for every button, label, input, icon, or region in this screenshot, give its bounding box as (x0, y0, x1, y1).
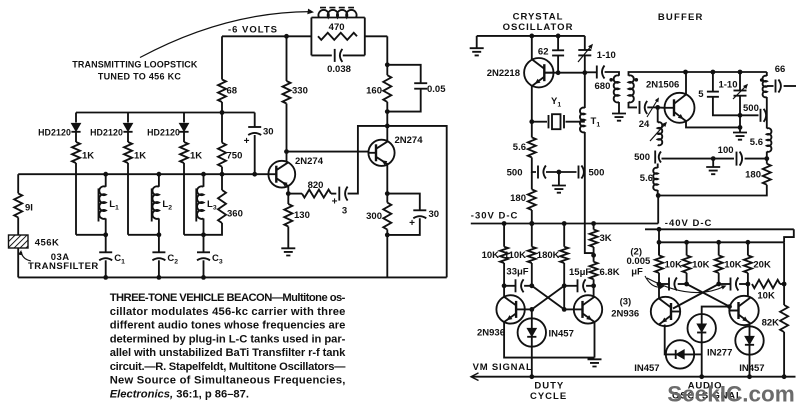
wire L1 core bar (98, 188, 100, 221)
svg-text:33μF: 33μF (506, 267, 528, 278)
wire Q3 base (525, 308, 532, 310)
wire cap5 top (712, 72, 714, 92)
svg-text:3K: 3K (600, 233, 612, 244)
svg-text:2N936: 2N936 (477, 328, 505, 339)
junction 1-10b/500 node (738, 113, 743, 118)
capacitor 100 (736, 152, 738, 166)
resistor 330 (283, 81, 291, 104)
wire Q4 base (564, 308, 574, 310)
svg-text:VM SIGNAL: VM SIGNAL (473, 362, 533, 373)
svg-text:TUNED TO 456 KC: TUNED TO 456 KC (98, 72, 182, 82)
resistor 180 buffer (763, 164, 771, 185)
svg-text:2N936: 2N936 (611, 309, 639, 320)
wire T1 top (584, 73, 586, 108)
svg-text:5.6: 5.6 (750, 137, 763, 148)
junction emitter/ground node (738, 125, 743, 130)
inductor L2 (152, 186, 158, 219)
wire emitter node to 300 (386, 194, 388, 203)
capacitor 500 buffer right (760, 109, 762, 122)
wire R1 to node (658, 273, 660, 284)
wire rail through 470 box (365, 35, 388, 37)
resistor 6.8K (590, 262, 598, 279)
ground buffer emitter (733, 133, 747, 140)
capacitor 500 buffer left (655, 151, 661, 164)
wire C3 to bottom bus (203, 260, 205, 277)
wire ground stem 500s (558, 172, 560, 186)
junction ff2 node 3 (716, 282, 721, 287)
junction Q4 base node (562, 307, 567, 312)
junction rail 2N1506 collector (683, 70, 688, 75)
junction base/T1 (582, 70, 587, 75)
transistor Q5 2N936 (651, 297, 680, 326)
wire Q2 emitter (386, 164, 388, 193)
node phasing dot primary (609, 78, 613, 82)
junction 300 bottom (385, 233, 390, 238)
wire T1 bottom (585, 132, 594, 255)
wire 110K top (531, 224, 533, 247)
wire 500s middle (546, 171, 577, 173)
wire Q6 collector (747, 284, 749, 296)
wire 1N277 top (702, 307, 730, 315)
wire Q1 collector (286, 152, 288, 162)
wire base chain bottom (657, 190, 659, 196)
svg-text:10K: 10K (757, 291, 775, 302)
wire 33uF left (504, 285, 515, 287)
wire transfilter to bottom bus (17, 248, 19, 277)
crystal Y1 (549, 115, 565, 128)
junction tank 1 (103, 232, 108, 237)
wire D2 to 1N277 line (694, 353, 702, 355)
wire cap3 to Q2 collector node (348, 126, 388, 194)
wire 10Kh right (780, 283, 784, 285)
capacitor 680 (596, 66, 598, 79)
wire 1N277 bottom (701, 342, 703, 376)
junction 82K bus (782, 374, 787, 379)
wire 2N2218 base (545, 72, 585, 74)
wire R2 to node (686, 273, 688, 284)
resistor 180K (560, 247, 568, 263)
junction bottom bus 3 (201, 275, 206, 280)
junction diode-rail (220, 110, 225, 115)
wire 1-10a top (584, 36, 586, 50)
wire 3K top (593, 224, 595, 230)
resistor 10K ff1 (500, 247, 508, 263)
svg-text:(3): (3) (620, 297, 632, 308)
diode HD2120 #2 (123, 123, 132, 131)
svg-text:15μF: 15μF (569, 267, 591, 278)
svg-text:360: 360 (227, 209, 243, 220)
inductor tuning variable (658, 122, 663, 145)
wire cross D (673, 284, 719, 309)
svg-text:470: 470 (329, 22, 345, 33)
svg-text:30: 30 (263, 127, 274, 138)
capacitor 500 right (578, 166, 580, 179)
wire tank to node (766, 152, 768, 164)
junction 3K/T1 (591, 253, 596, 258)
svg-text:TRANSFILTER: TRANSFILTER (28, 261, 99, 272)
resistor 820 (302, 190, 331, 198)
capacitor 33uF (515, 279, 517, 292)
svg-text:2N274: 2N274 (395, 135, 424, 146)
wire diode D1 bottom (531, 347, 533, 377)
junction rail 1-10b (738, 70, 743, 75)
svg-text:9I: 9I (25, 203, 33, 214)
wire 330 to collector node (286, 104, 288, 152)
junction railA x659 (657, 227, 662, 232)
wire 100 line (662, 158, 735, 160)
junction ff2 node 1 (657, 282, 662, 287)
junction base/cap62 (556, 70, 561, 75)
wire diode 1 to 1K (75, 133, 77, 143)
junction -30V rail (591, 221, 596, 226)
svg-text:SeekIC.com: SeekIC.com (667, 382, 795, 407)
resistor 3K (590, 230, 598, 248)
wire 1-10a bottom (584, 55, 586, 72)
junction bottom bus 1 (103, 275, 108, 280)
junction duty tap (529, 374, 534, 379)
wire 300 to bottom bus (386, 230, 388, 278)
wire 180 osc to rail (531, 210, 533, 224)
wire 82K column (783, 242, 785, 305)
ground buffer 100 (706, 167, 720, 174)
wire 750 to bus (221, 167, 223, 175)
svg-text:HD2120: HD2120 (147, 128, 180, 138)
wire diode 3 top (183, 113, 185, 123)
diode D3 1N277 circled (688, 314, 716, 342)
svg-text:5: 5 (698, 89, 704, 100)
capacitor 0.005 left (668, 278, 670, 291)
wire ground stem buffer1 (739, 127, 741, 132)
capacitor 1-10 buffer (734, 90, 747, 92)
wire osc top rail (477, 35, 585, 37)
wire 82K bottom (783, 332, 785, 377)
wire railB to R3 (718, 242, 720, 255)
resistor 300 (383, 203, 391, 230)
junction 750/bus (220, 172, 225, 177)
svg-text:OSCILLATOR: OSCILLATOR (503, 22, 574, 33)
diode D4 1N457 circled (735, 326, 763, 354)
wire cross C (687, 284, 730, 307)
junction collector Q1 / base Q2 (284, 149, 289, 154)
svg-text:180K: 180K (537, 250, 560, 261)
wire 5.6 to node (532, 157, 536, 172)
transistor Q2 2N274 (368, 140, 394, 166)
wire cap62 top (557, 36, 559, 50)
junction ff2 node 2 (684, 282, 689, 287)
wire 110K bottom (531, 263, 533, 286)
wire tank mid (766, 97, 768, 129)
ground ff1 (588, 359, 602, 366)
resistor 5.6 osc (528, 137, 536, 157)
transistor Q3 2N936 (496, 295, 524, 323)
junction ff1 node (502, 283, 507, 288)
junction Q3 base node (529, 307, 534, 312)
inductor L3 (197, 186, 203, 219)
wire 2N2218 collector (531, 36, 533, 60)
resistor 1K #3 (180, 142, 188, 163)
wire bus to 91 (17, 174, 19, 193)
junction rail cap62 (556, 34, 561, 39)
junction ff1 node (591, 283, 596, 288)
diode HD2120 #1 (71, 123, 80, 131)
svg-text:110K: 110K (504, 250, 526, 261)
wire buffer bottom to rail (657, 196, 659, 224)
svg-text:1K: 1K (190, 151, 202, 162)
wire ground stem buffer2 (712, 159, 714, 167)
resistor 1K #1 (72, 142, 80, 163)
junction railB (746, 240, 751, 245)
junction ff1 node (529, 283, 534, 288)
svg-text:10K: 10K (692, 260, 710, 271)
svg-text:+: + (244, 136, 250, 147)
junction bus (157, 172, 162, 177)
wire 1K #1 down across bus (75, 163, 77, 235)
wire 180K top (563, 224, 565, 247)
wire tank 2 to C (158, 235, 160, 253)
wire railB to R4 (747, 242, 749, 255)
capacitor 15uF (577, 279, 579, 292)
ground coupling primary (612, 114, 626, 121)
wire rail corner to 160 (386, 36, 388, 75)
svg-text:DUTY: DUTY (534, 381, 564, 392)
svg-text:500: 500 (589, 168, 605, 179)
svg-text:+: + (332, 197, 338, 208)
wire 0.05 loop (387, 65, 420, 83)
wire 1K #3 down across bus (183, 163, 185, 235)
resistor 10K ff2 #1 (655, 255, 663, 272)
resistor 82K (780, 305, 788, 332)
junction bus (103, 172, 108, 177)
wire diode 3 to 1K (183, 133, 185, 143)
wire cap680 to primary (605, 72, 619, 76)
wire 66 tap (767, 85, 774, 87)
svg-text:500: 500 (507, 168, 523, 179)
svg-text:-40V D-C: -40V D-C (665, 218, 713, 229)
wire diode 1 top (75, 113, 77, 123)
junction 160 bottom (385, 109, 390, 114)
wire 0.05 bottom loop (387, 89, 420, 112)
wire diode rail (76, 112, 255, 114)
svg-text:1K: 1K (134, 151, 146, 162)
wire -30V rail (471, 223, 658, 225)
annotation VM arrow (471, 373, 479, 381)
svg-text:500: 500 (634, 152, 650, 163)
wire -40V rail B (659, 241, 784, 243)
wire bottom bus (18, 276, 447, 278)
wire R3 to node (718, 273, 720, 284)
inductor L1 (99, 186, 105, 219)
wire tank2 left loop (128, 234, 159, 236)
wire -40V rail A (645, 228, 794, 230)
wire cap24 to base (647, 106, 657, 108)
wire Q5 collector (658, 284, 660, 299)
transistor Q1 2N274 (268, 161, 295, 188)
resistor 130 (284, 204, 292, 227)
junction tank 2 (157, 232, 162, 237)
wire railA to railB (658, 229, 660, 255)
svg-text:0.05: 0.05 (427, 84, 446, 95)
node -6V rail (222, 35, 311, 37)
svg-text:2N1506: 2N1506 (646, 80, 679, 91)
wire emitter node to cap30b (387, 194, 420, 211)
ground osc rail (470, 48, 484, 55)
transistor U1 2N2218 (524, 58, 553, 87)
annotation arrow cap left (645, 276, 662, 287)
svg-text:24: 24 (639, 119, 650, 130)
junction railB (684, 240, 689, 245)
svg-text:180: 180 (745, 170, 761, 181)
svg-text:Electronics, 36:1, p 86–87.: Electronics, 36:1, p 86–87. (110, 389, 249, 401)
junction railB (657, 240, 662, 245)
junction bottom bus 2 (157, 275, 162, 280)
wire 1-10b top (739, 72, 741, 91)
wire L3 core bar (195, 188, 197, 221)
wire osc ground stem (476, 36, 478, 48)
capacitor 66 (775, 80, 777, 93)
wire rail corner to 68 (221, 36, 223, 79)
wire 500b line (740, 114, 759, 116)
inductor loopstick coil (318, 10, 356, 18)
svg-text:160: 160 (366, 86, 382, 97)
resistor 160 (383, 75, 391, 102)
junction bus (252, 172, 257, 177)
svg-text:10K: 10K (724, 260, 742, 271)
svg-text:100: 100 (718, 145, 734, 156)
transistor Q4 2N936 (574, 295, 602, 323)
svg-text:2N274: 2N274 (295, 156, 324, 167)
wire diode 2 top (127, 113, 129, 123)
wire cross A (532, 286, 564, 310)
junction ff2 node 4 (746, 282, 751, 287)
inductor tank upper (763, 76, 767, 98)
wire tank bottom (658, 185, 767, 196)
diode HD2120 #3 (179, 123, 188, 131)
wire primary to ground (618, 102, 620, 114)
svg-text:HD2120: HD2120 (38, 128, 71, 138)
wire 33uF right (524, 285, 532, 287)
inductor coupling primary (614, 75, 619, 102)
wire 2N1506 emitter (686, 121, 740, 127)
wire C2 to bottom bus (158, 260, 160, 277)
capacitor 24 (639, 101, 641, 114)
svg-text:circuit.—R. Stapelfeldt, Multi: circuit.—R. Stapelfeldt, Multitone Oscil… (110, 361, 347, 373)
capacitor 1-10 osc (578, 49, 591, 51)
wire crystal left (532, 121, 547, 123)
resistor 1K #2 (124, 142, 132, 163)
junction -30V rail (502, 221, 507, 226)
wire rail A jog (784, 229, 794, 242)
junction buffer bottom left (656, 193, 661, 198)
inductor coupling secondary (629, 75, 634, 102)
junction railB (716, 240, 721, 245)
wire railB to R1 (658, 242, 660, 255)
svg-text:456K: 456K (35, 238, 60, 249)
junction Q2 collector node (385, 124, 390, 129)
resistor 10K ff2 #3 (715, 255, 723, 272)
junction 10Kh/82K (782, 282, 787, 287)
capacitor 30 polarized (248, 126, 261, 128)
wire diode 2 to 1K (127, 133, 129, 143)
svg-text:0.038: 0.038 (327, 64, 351, 75)
junction emitter/crystal (529, 119, 534, 124)
wire 10K ff1 top (503, 224, 505, 247)
svg-text:IN457: IN457 (549, 329, 574, 340)
capacitor C2 (152, 251, 165, 253)
junction -30V rail (529, 221, 534, 226)
wire cap30b bottom (387, 218, 420, 235)
wire cap62 bottom (557, 56, 559, 73)
resistor 470 (318, 33, 357, 40)
wire 180K to base node (563, 286, 565, 310)
wire Q4 emitter (594, 322, 596, 358)
wire L1 to junction (105, 218, 107, 234)
svg-text:680: 680 (595, 81, 611, 92)
wire L3 to junction (203, 218, 205, 234)
svg-text:BUFFER: BUFFER (658, 12, 704, 23)
wire base to 2N1506 (658, 106, 665, 108)
wire Q3 emitter (504, 322, 594, 358)
ground 500s (552, 186, 566, 193)
wire railB to R2 (686, 242, 688, 255)
wire Q6 base (730, 307, 739, 311)
wire D4 bottom (749, 355, 751, 377)
resistor 68 (218, 80, 226, 103)
svg-text:5.6: 5.6 (513, 142, 526, 153)
svg-text:6.8K: 6.8K (600, 267, 620, 278)
wire 91 to transfilter (17, 217, 19, 235)
wire cap5 to 500 line (713, 97, 740, 116)
wire 6.8K bottom (593, 279, 595, 286)
wire Q3 collector (503, 286, 505, 297)
wire secondary top to rail (629, 72, 767, 76)
svg-text:20K: 20K (753, 260, 771, 271)
wire 68 to 750 (221, 102, 223, 143)
svg-text:130: 130 (294, 210, 310, 221)
capacitor C1 (99, 251, 112, 253)
wire 820 to cap3 (331, 193, 336, 195)
svg-text:66: 66 (775, 64, 786, 75)
svg-text:62: 62 (538, 47, 549, 58)
inductor 5.6 buffer left (653, 168, 657, 191)
svg-text:10K: 10K (482, 250, 500, 261)
wire tank1 left loop (76, 234, 106, 236)
resistor 10K horizontal (752, 280, 780, 288)
wire diode rail to cap30 (254, 113, 256, 128)
wire emitter to 5.6 (531, 122, 533, 138)
svg-text:-6 VOLTS: -6 VOLTS (228, 25, 278, 36)
wire 10K ff1 bottom (503, 263, 505, 286)
capacitor 30 output (413, 209, 426, 211)
wire crystal right (566, 121, 585, 123)
junction rail collector (529, 34, 534, 39)
diode D2 1N457 circled (666, 340, 694, 368)
wire 180 osc top (531, 172, 533, 189)
resistor 750 (218, 143, 226, 167)
svg-text:IN277: IN277 (707, 348, 732, 359)
junction 100 ground (711, 156, 716, 161)
inductor loopstick (dashed core) (320, 7, 354, 9)
wire L2 stub (158, 174, 160, 187)
junction ff1 node (562, 283, 567, 288)
annotation arrow cap right (647, 278, 724, 293)
wire L3 stub (203, 174, 205, 187)
svg-text:300: 300 (366, 211, 382, 222)
wire 130 to ground (287, 227, 289, 249)
junction audio tap (699, 374, 704, 379)
capacitor 3 (338, 187, 340, 201)
node phasing dot tank (760, 78, 764, 82)
capacitor 500 left (537, 166, 539, 179)
